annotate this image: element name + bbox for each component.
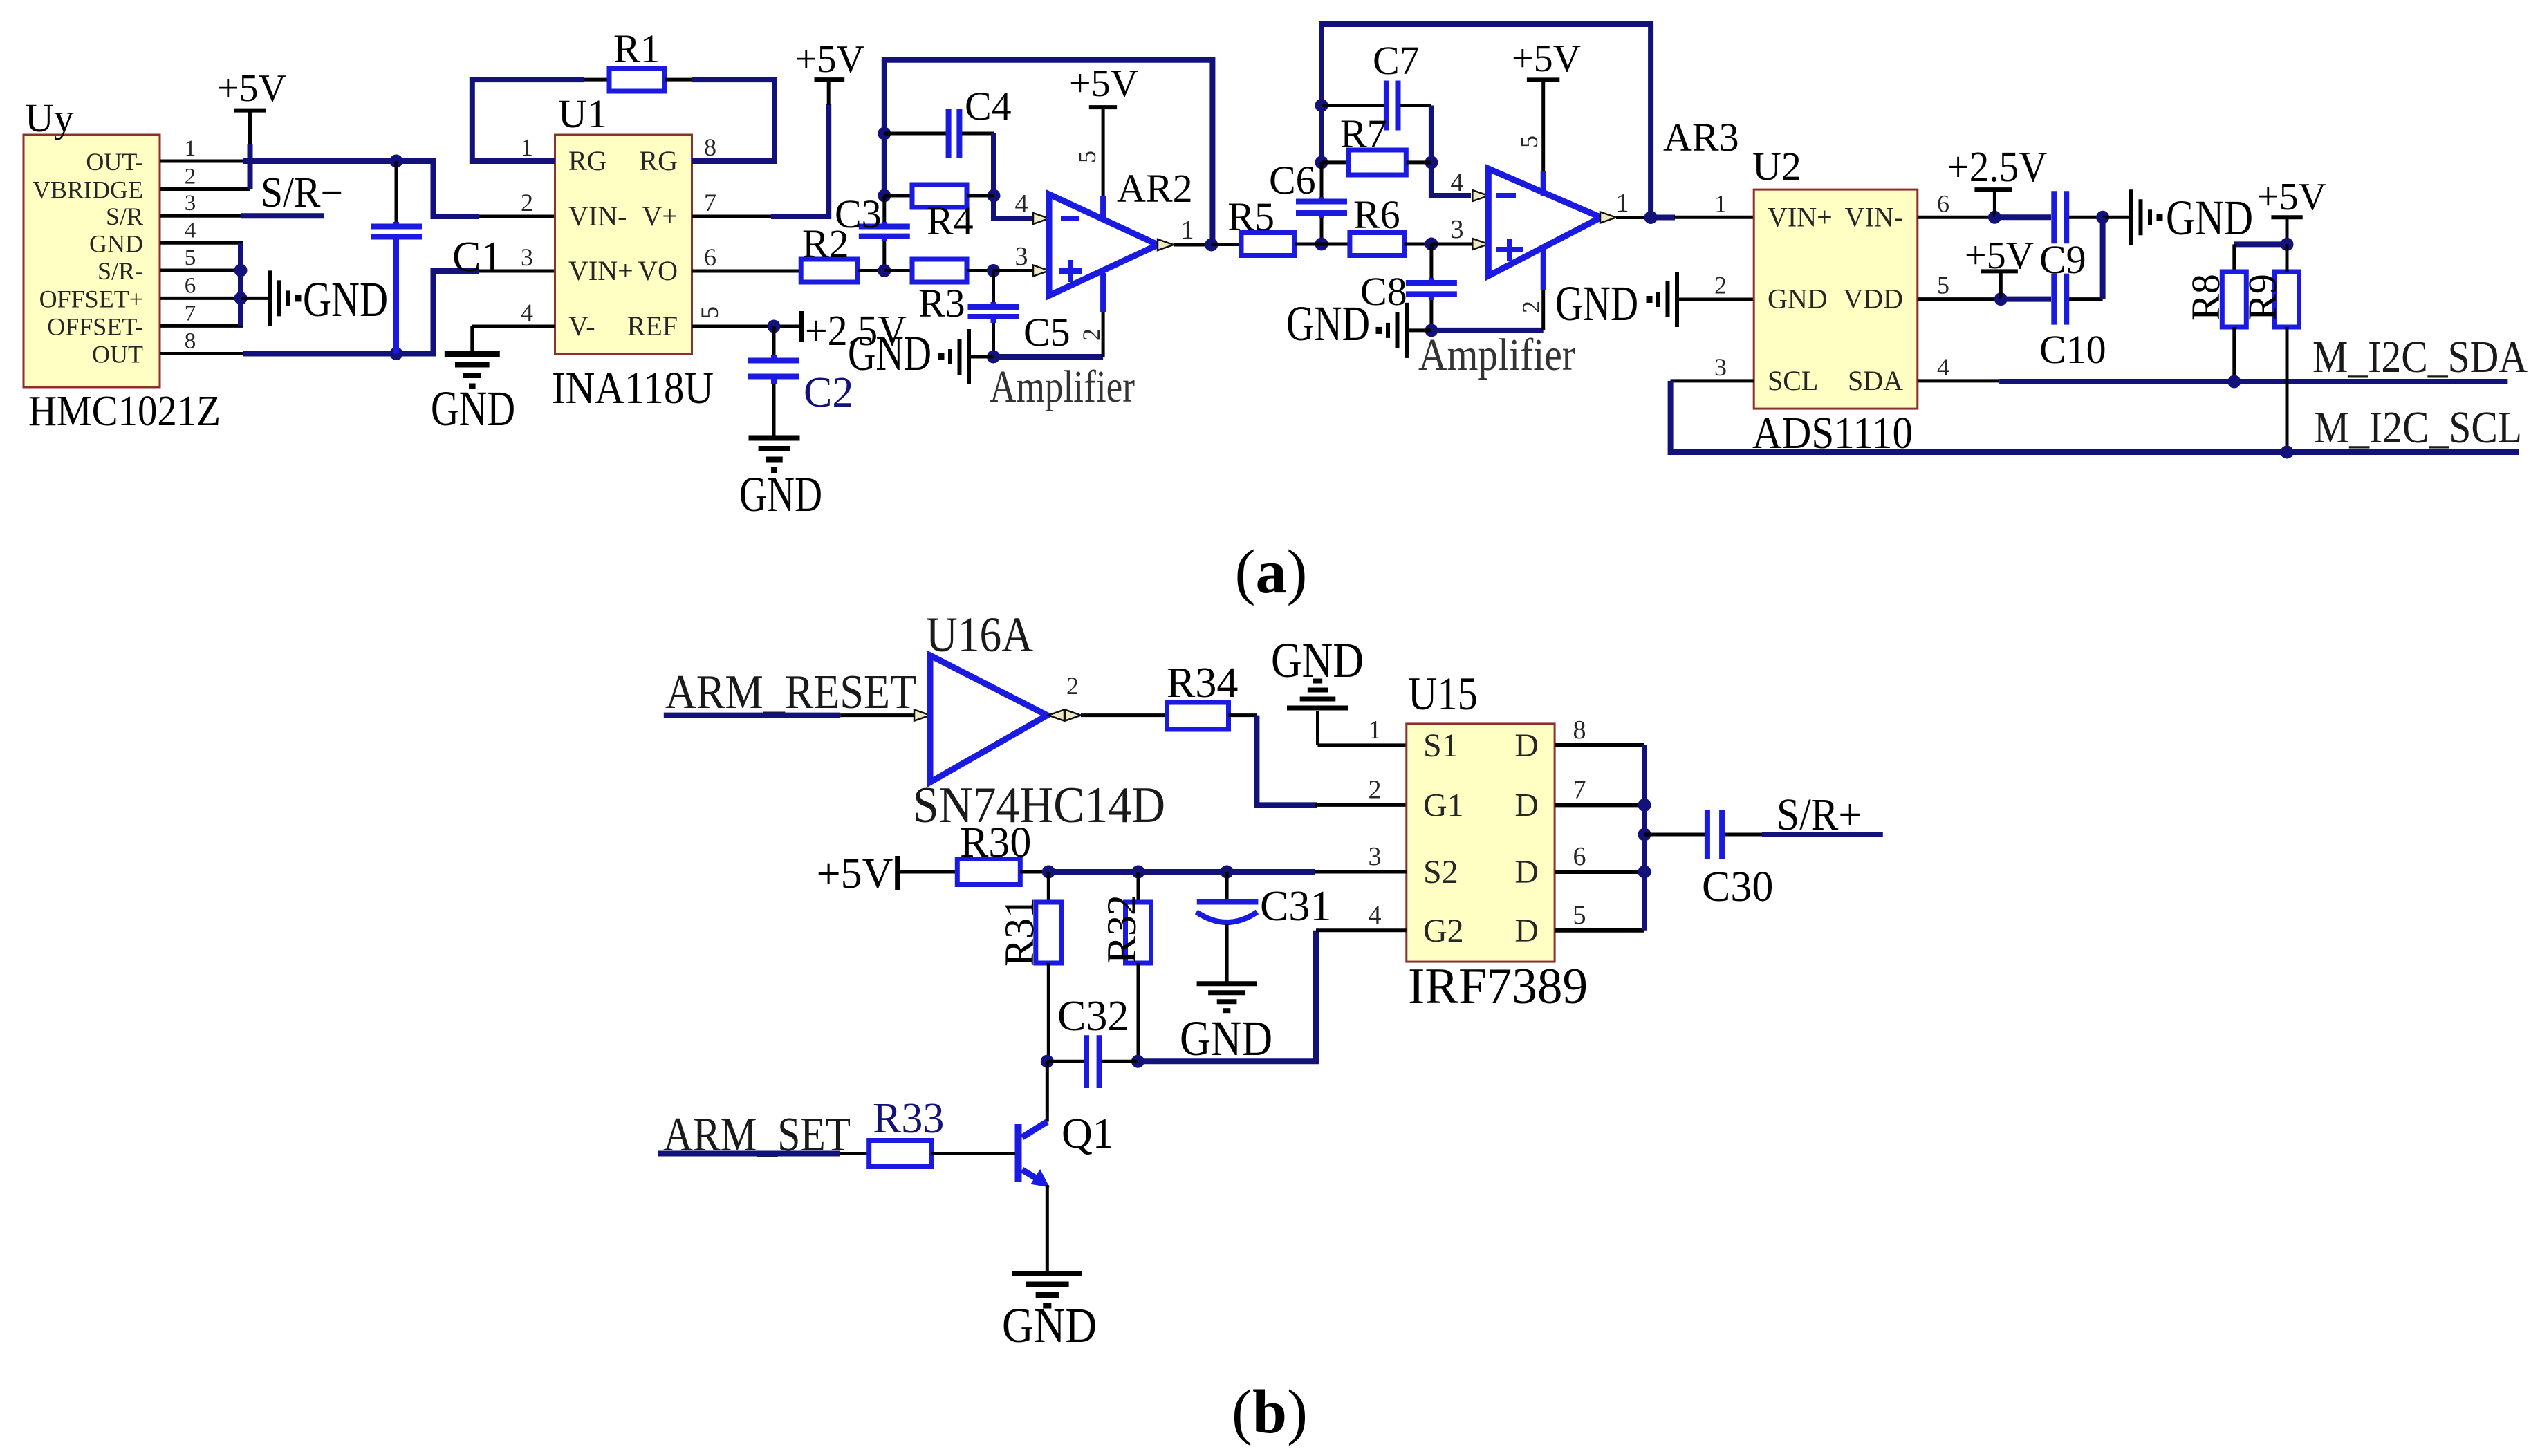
svg-text:3: 3 [1015,242,1028,271]
svg-text:SN74HC14D: SN74HC14D [913,777,1165,834]
svg-text:3: 3 [185,191,196,216]
svg-text:5: 5 [185,245,196,270]
svg-text:GND: GND [431,381,515,436]
svg-text:VDD: VDD [1843,283,1903,315]
svg-text:S/R: S/R [106,203,143,230]
svg-text:C7: C7 [1373,38,1420,83]
svg-text:C6: C6 [1269,158,1316,203]
svg-text:GND: GND [89,230,143,257]
svg-text:1: 1 [1714,189,1727,217]
svg-text:2: 2 [1517,301,1545,313]
svg-text:R4: R4 [927,198,974,243]
svg-text:GND: GND [739,467,822,522]
svg-text:M_I2C_SDA: M_I2C_SDA [2312,332,2528,382]
svg-text:OFFSET+: OFFSET+ [39,285,143,312]
svg-text:M_I2C_SCL: M_I2C_SCL [2314,402,2522,453]
svg-text:D: D [1514,787,1539,823]
svg-text:C2: C2 [804,369,853,416]
svg-text:7: 7 [1573,775,1586,804]
svg-text:3: 3 [1714,353,1727,381]
svg-text:+5V: +5V [2257,176,2326,218]
svg-text:C3: C3 [835,192,882,236]
svg-text:4: 4 [521,299,533,326]
svg-text:+5V: +5V [817,850,893,897]
svg-text:R9: R9 [2240,274,2285,321]
svg-text:D: D [1514,913,1539,949]
svg-text:(a): (a) [1235,538,1308,606]
svg-text:C1: C1 [452,234,502,281]
svg-text:R1: R1 [613,26,660,71]
svg-text:6: 6 [704,243,716,271]
svg-text:D: D [1514,854,1539,890]
svg-text:3: 3 [1369,842,1382,871]
svg-text:C9: C9 [2039,237,2086,282]
svg-text:GND: GND [1180,1011,1272,1066]
svg-text:VBRIDGE: VBRIDGE [33,176,143,204]
svg-text:R8: R8 [2183,274,2228,321]
svg-text:S/R+: S/R+ [1777,790,1862,840]
svg-text:5: 5 [1073,151,1101,163]
svg-text:R31: R31 [996,897,1042,967]
svg-text:U15: U15 [1408,667,1478,720]
svg-text:5: 5 [1573,901,1586,930]
svg-text:6: 6 [1573,842,1586,871]
svg-text:S1: S1 [1423,727,1458,764]
svg-text:OUT-: OUT- [86,148,143,176]
svg-text:IRF7389: IRF7389 [1408,958,1588,1015]
svg-text:4: 4 [1937,353,1949,381]
svg-text:GND: GND [1768,283,1828,315]
svg-text:R33: R33 [873,1095,944,1142]
svg-text:GND: GND [1002,1298,1097,1353]
svg-text:1: 1 [1616,189,1629,218]
svg-text:(b): (b) [1232,1378,1308,1446]
svg-text:5: 5 [696,306,723,319]
svg-text:D: D [1514,727,1539,764]
svg-text:R30: R30 [960,819,1031,866]
svg-text:4: 4 [1369,901,1382,930]
svg-text:2: 2 [521,189,533,216]
svg-text:7: 7 [704,189,716,216]
svg-text:S2: S2 [1423,854,1458,890]
svg-text:2: 2 [1066,672,1079,700]
svg-text:1: 1 [521,133,533,161]
svg-text:RG: RG [639,145,678,176]
svg-text:VIN+: VIN+ [1768,201,1833,232]
svg-text:8: 8 [704,133,716,161]
svg-text:GND: GND [848,326,931,381]
svg-text:ARM_RESET: ARM_RESET [665,666,916,719]
svg-text:REF: REF [627,310,678,342]
svg-text:6: 6 [185,273,196,298]
svg-text:C30: C30 [1702,864,1773,911]
svg-text:GND: GND [303,272,388,327]
svg-text:G2: G2 [1423,913,1464,949]
svg-text:+5V: +5V [1512,37,1581,80]
svg-text:+2.5V: +2.5V [1947,144,2048,191]
svg-text:S/R-: S/R- [98,257,143,285]
svg-text:SCL: SCL [1768,365,1818,396]
svg-text:U2: U2 [1752,144,1801,189]
svg-text:INA118U: INA118U [552,363,714,413]
svg-text:8: 8 [1573,716,1586,745]
svg-text:R6: R6 [1353,192,1400,237]
svg-text:VO: VO [638,255,678,286]
svg-text:C10: C10 [2039,327,2106,372]
svg-text:AR2: AR2 [1117,166,1193,211]
svg-text:VIN-: VIN- [568,200,627,232]
svg-text:+5V: +5V [217,67,286,110]
svg-text:4: 4 [1015,189,1028,218]
svg-text:5: 5 [1515,136,1543,148]
svg-text:Amplifier: Amplifier [990,362,1135,412]
svg-text:6: 6 [1937,189,1949,217]
svg-text:R34: R34 [1167,660,1238,707]
svg-text:VIN+: VIN+ [568,255,633,286]
svg-text:2: 2 [1714,272,1727,299]
svg-text:2: 2 [1369,775,1382,804]
svg-text:GND: GND [1286,296,1370,351]
svg-text:+5V: +5V [1069,62,1138,105]
svg-text:4: 4 [185,218,196,243]
svg-text:GND: GND [2166,190,2253,245]
svg-text:V+: V+ [642,200,678,232]
svg-text:1: 1 [185,136,196,161]
svg-text:C32: C32 [1057,993,1129,1040]
svg-text:4: 4 [1451,168,1464,197]
svg-text:5: 5 [1937,272,1949,299]
svg-text:VIN-: VIN- [1845,201,1903,232]
svg-text:Uy: Uy [25,95,74,140]
svg-text:HMC1021Z: HMC1021Z [28,388,221,435]
svg-text:Amplifier: Amplifier [1418,330,1575,380]
svg-text:R5: R5 [1227,194,1274,239]
svg-text:Q1: Q1 [1062,1110,1114,1157]
svg-text:C31: C31 [1260,883,1331,930]
svg-text:V-: V- [568,310,595,342]
svg-text:GND: GND [1555,276,1638,331]
svg-text:U16A: U16A [926,607,1033,662]
svg-text:RG: RG [568,145,607,176]
svg-text:1: 1 [1181,216,1194,245]
svg-text:2: 2 [185,165,196,189]
svg-text:+5V: +5V [1965,234,2034,277]
svg-text:AR3: AR3 [1663,115,1739,160]
svg-text:3: 3 [1451,215,1464,244]
svg-text:OFFSET-: OFFSET- [47,312,143,340]
svg-text:3: 3 [521,243,533,271]
svg-text:C5: C5 [1023,310,1070,355]
svg-text:U1: U1 [558,91,607,136]
svg-text:OUT: OUT [92,341,143,368]
svg-text:SDA: SDA [1848,365,1903,396]
svg-text:S/R−: S/R− [261,169,343,216]
svg-text:R32: R32 [1099,895,1144,964]
svg-text:R3: R3 [918,281,965,326]
svg-text:2: 2 [1077,328,1105,341]
svg-text:1: 1 [1369,716,1382,745]
svg-text:R7: R7 [1340,111,1387,156]
svg-text:7: 7 [185,301,196,326]
svg-text:+5V: +5V [795,38,864,81]
svg-text:C4: C4 [965,84,1012,129]
svg-text:8: 8 [185,329,196,354]
svg-text:G1: G1 [1423,787,1464,823]
